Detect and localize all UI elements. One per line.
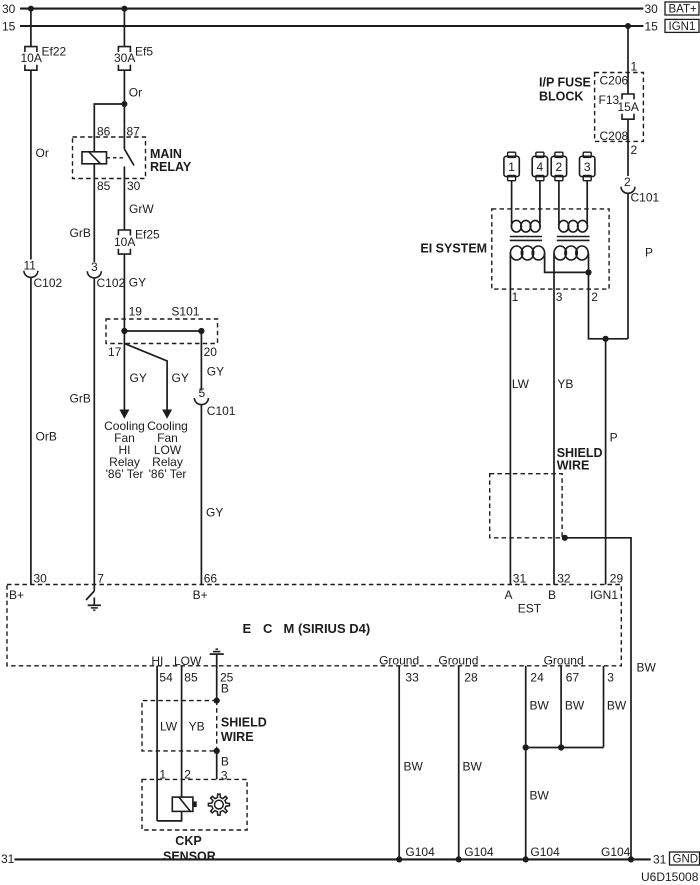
wire: fuse Ef5 to node, label Or <box>124 70 142 104</box>
svg-text:4: 4 <box>537 160 544 174</box>
wire: node to relay switch pin 87 <box>123 104 125 149</box>
svg-text:CKP: CKP <box>175 834 201 848</box>
svg-text:30: 30 <box>645 2 659 16</box>
svg-text:LW: LW <box>160 720 178 734</box>
ECM pin 30 B+ <box>9 572 47 602</box>
svg-text:C206: C206 <box>600 74 629 88</box>
svg-text:30: 30 <box>2 2 16 16</box>
svg-text:31: 31 <box>513 572 527 586</box>
wire: fuse Ef22 to connector C102-11, label Or <box>31 70 49 259</box>
wire: plug 3 to coil 2 secondary <box>586 181 588 222</box>
ECM pin 31 A EST <box>505 572 542 616</box>
svg-text:10A: 10A <box>21 51 42 65</box>
svg-text:P: P <box>610 431 618 445</box>
wire: plug 4 to coil 1 secondary <box>539 181 541 222</box>
wire: pin 33 to G104, label BW <box>399 666 423 860</box>
ignition coil 2 core <box>557 237 590 241</box>
svg-text:1: 1 <box>631 60 638 74</box>
node: merge at 67 <box>558 744 564 750</box>
svg-text:B: B <box>548 588 556 602</box>
bus line 31 GND <box>1 852 700 867</box>
svg-text:31: 31 <box>1 852 15 866</box>
svg-text:20: 20 <box>204 345 218 359</box>
ECM pin 29 IGN1 <box>590 572 623 603</box>
svg-text:C101: C101 <box>207 404 236 418</box>
destination text: Cooling Fan HI Relay '86' Ter <box>104 419 145 481</box>
svg-text:30: 30 <box>127 179 141 193</box>
svg-text:3: 3 <box>584 160 591 174</box>
connector C102 pin 3 <box>87 260 125 290</box>
wire: S101 diagonal to cooling fan LOW, label GY <box>124 344 188 412</box>
G104 at shield BW wire <box>601 845 634 863</box>
wire: pin 3 down, label BW <box>604 666 627 748</box>
wire: merged ground to G104, label BW <box>526 748 550 860</box>
svg-text:GY: GY <box>172 371 189 385</box>
svg-text:7: 7 <box>97 572 104 586</box>
svg-text:33: 33 <box>405 671 419 685</box>
svg-text:BW: BW <box>404 759 424 773</box>
wire: S101 pin 17 to cooling fan HI, label GY <box>124 331 146 411</box>
ECM box <box>7 585 621 666</box>
wire: ground merge bar <box>526 747 604 749</box>
svg-text:GrB: GrB <box>70 226 91 240</box>
wire: coil2 primary right to common node <box>588 253 590 272</box>
CKP pickup coil <box>172 797 196 811</box>
splice junction left <box>121 328 127 334</box>
svg-text:EST: EST <box>518 601 542 615</box>
svg-text:17: 17 <box>108 345 122 359</box>
wire: EI pin 3 to ECM pin 32, label YB <box>554 289 573 584</box>
junction on line 30 at wire Ef5 <box>121 6 127 12</box>
junction on line 15 at IGN1 feed <box>625 23 631 29</box>
spark plug connector 1 <box>504 152 519 181</box>
svg-text:2: 2 <box>624 175 631 189</box>
svg-text:GY: GY <box>129 276 146 290</box>
svg-text:54: 54 <box>159 671 173 685</box>
svg-text:15A: 15A <box>618 100 639 114</box>
svg-text:Ground: Ground <box>544 654 584 668</box>
svg-text:OrB: OrB <box>36 430 57 444</box>
wire: relay pin 30 to fuse Ef25, label GrW <box>124 179 154 230</box>
svg-text:3: 3 <box>556 290 563 304</box>
svg-text:Ef22: Ef22 <box>42 45 67 59</box>
svg-text:S101: S101 <box>171 304 199 318</box>
svg-text:85: 85 <box>184 671 198 685</box>
ignition coil 1 secondary winding <box>511 220 540 232</box>
svg-text:Or: Or <box>129 86 142 100</box>
wire: fuse block pin 2 down <box>628 119 638 176</box>
ignition coil 1 core <box>510 237 542 241</box>
svg-text:P: P <box>645 246 653 260</box>
svg-text:BLOCK: BLOCK <box>539 90 583 104</box>
CKP reluctor gear <box>208 794 229 815</box>
CKP sensor box <box>142 779 247 863</box>
svg-text:LOW: LOW <box>174 654 202 668</box>
wire: shield to CKP pin 3, labels B 3 <box>217 751 229 783</box>
relay switch blade <box>124 149 134 179</box>
svg-text:10A: 10A <box>114 235 135 249</box>
svg-text:G104: G104 <box>464 845 494 859</box>
arrow to cooling fan HI relay <box>119 410 129 419</box>
connector C101 pin 2 <box>621 175 660 205</box>
svg-text:B+: B+ <box>9 588 24 602</box>
svg-text:GrW: GrW <box>129 202 154 216</box>
wire: coil1 primary left to pin 1 <box>509 253 511 289</box>
splice S101 box <box>106 304 218 343</box>
spark plug connector 4 <box>532 152 547 181</box>
fuse Ef5 30A <box>114 45 153 71</box>
svg-text:BW: BW <box>463 759 483 773</box>
wire: connector to ECM pin 30, label OrB <box>31 277 57 584</box>
svg-text:I/P FUSE: I/P FUSE <box>539 76 591 90</box>
arrow to cooling fan LOW relay <box>162 410 172 419</box>
svg-text:Ground: Ground <box>438 654 478 668</box>
svg-text:B: B <box>221 754 229 768</box>
bus line 30 BAT+ <box>2 2 699 16</box>
svg-text:BW: BW <box>637 661 657 675</box>
shield wire box around EST <box>490 446 603 538</box>
G104 at pin 33 wire <box>396 845 435 863</box>
svg-text:BW: BW <box>530 698 550 712</box>
svg-text:G104: G104 <box>601 845 631 859</box>
svg-text:28: 28 <box>464 671 478 685</box>
spark plug connector 2 <box>551 152 566 181</box>
case ground blade at pin 7 <box>86 585 94 601</box>
wire: splice bar <box>124 330 201 332</box>
wire: line30 to fuse Ef5 <box>123 9 125 47</box>
svg-text:RELAY: RELAY <box>150 160 192 174</box>
fuse Ef22 10A <box>21 45 67 71</box>
svg-text:WIRE: WIRE <box>557 458 590 472</box>
wire: connector C102-3 to ECM pin 7, label GrB <box>70 278 95 585</box>
ECM pin 66 B+ <box>193 572 218 602</box>
svg-text:Or: Or <box>36 146 49 160</box>
svg-text:Ef5: Ef5 <box>135 45 153 59</box>
EI system box <box>420 209 609 289</box>
node: merge at 24 <box>523 744 529 750</box>
svg-text:U6D15008: U6D15008 <box>641 870 699 884</box>
spark plug connector 3 <box>580 152 595 181</box>
node: coil commons joined <box>585 269 591 275</box>
wire: connector C101-5 to ECM pin 66, label GY <box>201 405 223 585</box>
svg-text:Ground: Ground <box>379 654 419 668</box>
svg-text:1: 1 <box>512 290 519 304</box>
connector C101 pin 5 <box>194 386 235 418</box>
svg-text:29: 29 <box>610 572 624 586</box>
svg-text:B+: B+ <box>193 588 208 602</box>
relay actuator dashed link <box>107 157 126 159</box>
svg-text:BW: BW <box>530 788 550 802</box>
shield terminal symbol above pin 25 <box>210 649 224 654</box>
wire: plug 1 to coil 1 secondary <box>511 181 513 222</box>
svg-text:3: 3 <box>221 769 228 783</box>
wire: pin 24 down, label BW <box>526 666 550 748</box>
svg-text:G104: G104 <box>530 845 560 859</box>
node: shield bottom junction <box>214 748 220 754</box>
node: shield drain tap <box>562 535 568 541</box>
svg-text:'86' Ter: '86' Ter <box>106 467 144 481</box>
wire: ECM pin 85 to CKP coil, label YB <box>182 666 205 797</box>
node: shield top junction <box>214 698 220 704</box>
svg-text:LW: LW <box>512 377 530 391</box>
wire: shield drain to right BW wire <box>565 538 631 860</box>
wire: junction to ECM pin 29, label P <box>606 339 618 585</box>
svg-text:BAT+: BAT+ <box>669 4 698 16</box>
wire: branch to relay coil pin 86 <box>94 104 124 152</box>
wire: pin 67 down, label BW <box>561 666 585 748</box>
wire: ECM pin 54 to CKP, label LW <box>157 666 178 821</box>
main relay K box <box>73 137 192 179</box>
fuse Ef25 10A <box>114 228 160 254</box>
svg-text:66: 66 <box>204 572 218 586</box>
svg-text:GY: GY <box>130 371 147 385</box>
svg-text:5: 5 <box>199 386 206 400</box>
ignition coil 2 secondary winding <box>559 220 588 232</box>
svg-text:3: 3 <box>91 260 98 274</box>
svg-text:SENSOR: SENSOR <box>163 850 216 864</box>
svg-text:15: 15 <box>2 19 16 33</box>
svg-text:IGN1: IGN1 <box>669 21 696 33</box>
node: relay feed junction <box>121 101 127 107</box>
svg-text:30A: 30A <box>114 51 135 65</box>
svg-text:C101: C101 <box>631 191 660 205</box>
svg-text:15: 15 <box>645 19 659 33</box>
svg-text:YB: YB <box>189 720 205 734</box>
svg-text:EI SYSTEM: EI SYSTEM <box>420 242 487 256</box>
svg-text:IGN1: IGN1 <box>590 588 618 602</box>
svg-text:30: 30 <box>34 572 48 586</box>
wire: connector C101-2 down, label P <box>628 193 653 338</box>
wire: coil2 primary left to pin 3 <box>553 253 555 289</box>
wire: plug 2 to coil 2 secondary <box>558 181 560 222</box>
wire: pin 28 to G104, label BW <box>459 666 483 860</box>
wire: fuse Ef25 to S101, label GY <box>124 254 146 331</box>
svg-text:WIRE: WIRE <box>221 730 254 744</box>
svg-text:31: 31 <box>653 853 667 867</box>
svg-text:MAIN: MAIN <box>150 147 182 161</box>
wire: coil1 primary right to common node <box>545 253 589 272</box>
svg-text:1: 1 <box>508 160 515 174</box>
svg-text:67: 67 <box>566 671 580 685</box>
bus line 15 IGN1 <box>2 19 699 33</box>
svg-text:BW: BW <box>565 698 585 712</box>
svg-text:24: 24 <box>530 671 544 685</box>
svg-text:'86' Ter: '86' Ter <box>149 467 187 481</box>
connector C102 pin 11 <box>24 259 63 291</box>
ignition coil 1 primary winding <box>510 246 544 260</box>
svg-text:32: 32 <box>557 572 571 586</box>
ECM pin 25 B <box>220 671 234 696</box>
node: P wire junction <box>603 336 609 342</box>
splice junction right <box>198 328 204 334</box>
svg-text:87: 87 <box>127 124 141 138</box>
svg-text:2: 2 <box>591 290 598 304</box>
svg-text:GY: GY <box>206 506 223 520</box>
svg-text:F13: F13 <box>599 93 620 107</box>
svg-text:85: 85 <box>97 179 111 193</box>
svg-text:19: 19 <box>129 304 143 318</box>
wire: line30 to fuse Ef22 <box>30 9 32 47</box>
G104 at merged wire <box>523 845 560 863</box>
svg-text:C102: C102 <box>97 276 126 290</box>
ECM pin 32 B <box>548 572 571 603</box>
wire: line15 to I/P fuse block, pin 1 <box>628 26 638 94</box>
svg-text:GND: GND <box>673 854 699 866</box>
wire: CKP coil loop <box>157 811 182 821</box>
svg-text:C102: C102 <box>34 276 63 290</box>
svg-text:B: B <box>221 682 229 696</box>
wire: EI pin 1 to ECM pin 31, label LW <box>510 289 529 584</box>
svg-text:GrB: GrB <box>70 392 91 406</box>
ground symbol at pin 7 <box>88 598 101 611</box>
svg-text:G104: G104 <box>405 845 435 859</box>
svg-text:A: A <box>505 588 513 602</box>
ignition coil 2 primary winding <box>554 246 588 260</box>
junction on line 30 at wire Or (left) <box>28 6 34 12</box>
svg-text:86: 86 <box>97 124 111 138</box>
svg-text:GY: GY <box>207 365 224 379</box>
wire: shield terminal to shield box, pin 25 <box>216 654 218 701</box>
I/P fuse block box <box>539 73 643 142</box>
svg-text:2: 2 <box>556 160 563 174</box>
svg-text:C: C <box>263 621 273 636</box>
svg-text:11: 11 <box>24 259 37 273</box>
svg-text:YB: YB <box>557 377 573 391</box>
svg-text:SHIELD: SHIELD <box>221 715 267 729</box>
wire: S101 pin 20 down, label GY <box>201 331 224 391</box>
wire: EI pin 2 to P junction <box>589 272 629 338</box>
svg-text:Ef25: Ef25 <box>135 228 160 242</box>
svg-text:C208: C208 <box>600 129 629 143</box>
wire: relay coil pin 85 down, label GrB <box>70 164 95 262</box>
shield wire box (CKP) <box>142 701 267 751</box>
G104 at pin 28 wire <box>456 845 494 863</box>
svg-text:M (SIRIUS D4): M (SIRIUS D4) <box>284 621 371 636</box>
svg-text:BW: BW <box>607 698 627 712</box>
fuse F13 15A <box>599 93 639 119</box>
svg-text:3: 3 <box>607 671 614 685</box>
svg-text:E: E <box>243 621 252 636</box>
svg-text:2: 2 <box>631 143 638 157</box>
destination text: Cooling Fan LOW Relay '86' Ter <box>147 419 188 481</box>
relay coil <box>82 152 107 164</box>
